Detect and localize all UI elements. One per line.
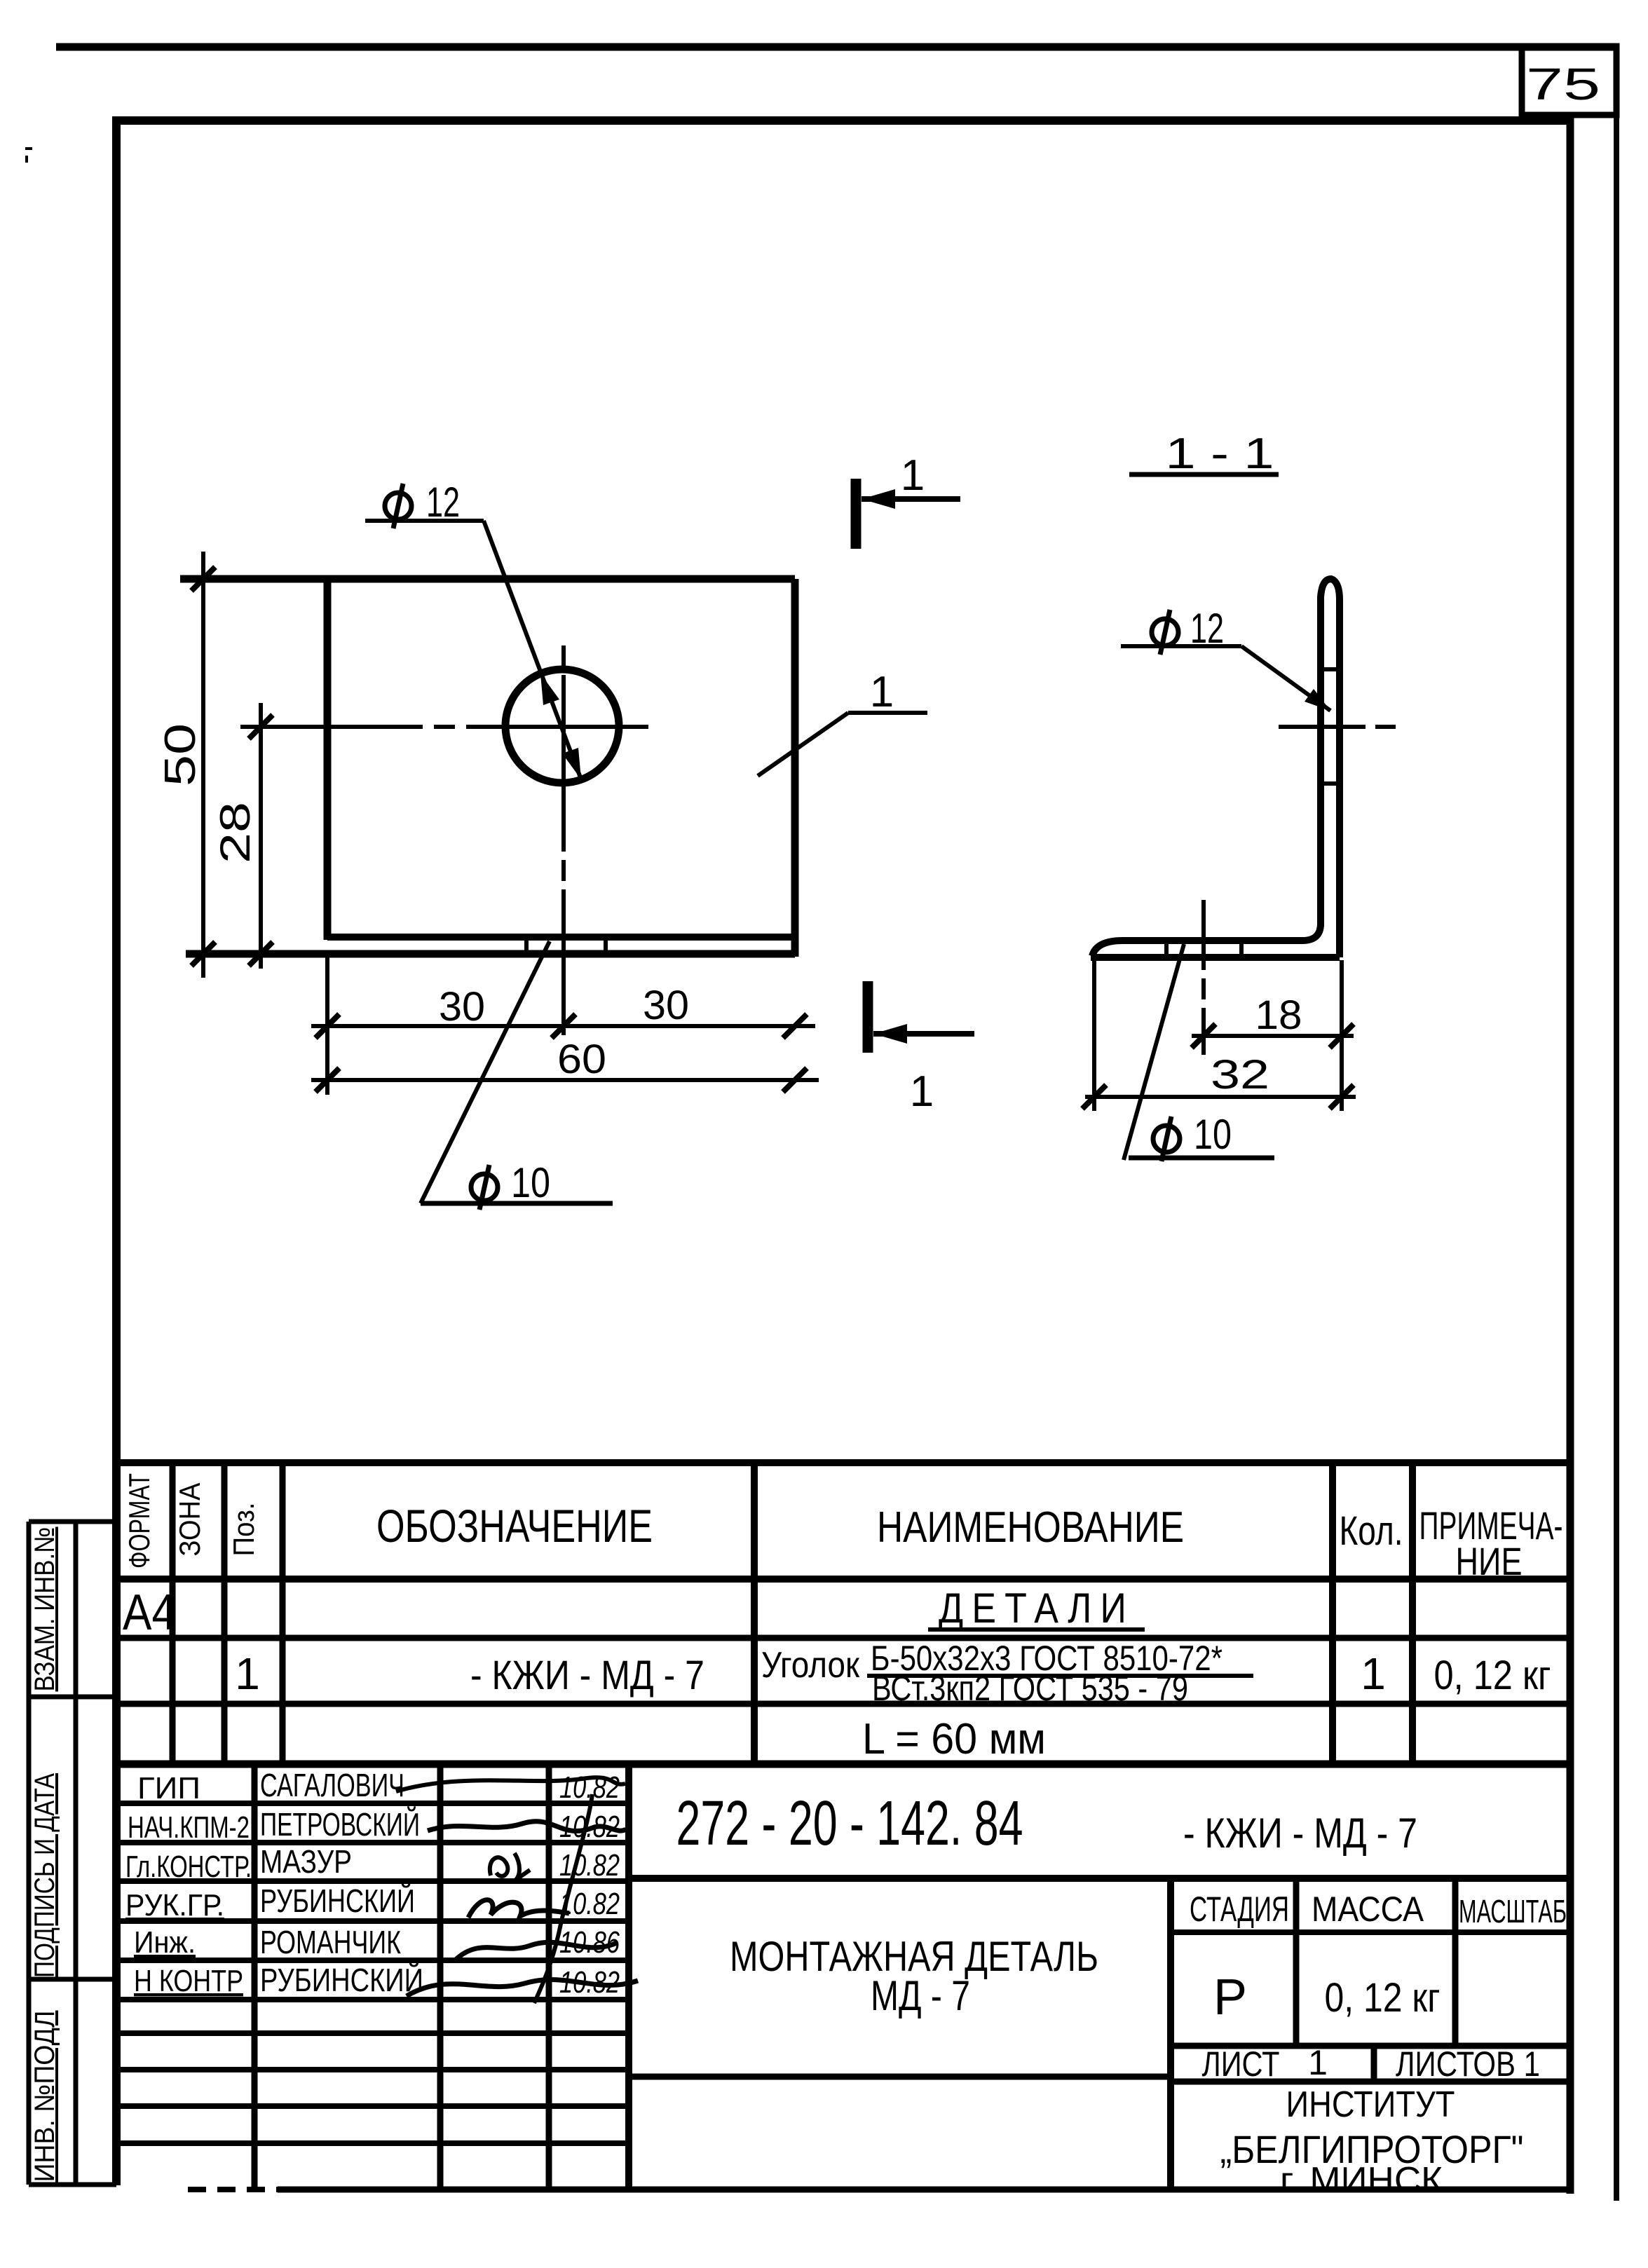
hole vertical center line — [561, 645, 566, 1035]
signature table verticals — [252, 1764, 258, 2188]
side strip outer/inner verticals — [27, 1522, 32, 2185]
svg-text:ОБОЗНАЧЕНИЕ: ОБОЗНАЧЕНИЕ — [376, 1500, 653, 1552]
svg-text:ПЕТРОВСКИЙ: ПЕТРОВСКИЙ — [260, 1806, 420, 1843]
svg-text:10.82: 10.82 — [559, 1848, 620, 1883]
svg-text:МД - 7: МД - 7 — [871, 1972, 970, 2019]
svg-text:0, 12 кг: 0, 12 кг — [1325, 1975, 1441, 2021]
stadia/massa/masshtab header row — [1171, 1929, 1570, 1935]
section: flange bottom line — [1091, 954, 1340, 961]
svg-text:ИНВ. №ПОДЛ: ИНВ. №ПОДЛ — [29, 2011, 60, 2182]
section: hole center line — [1279, 725, 1396, 729]
drawing frame border right — [1567, 115, 1574, 2194]
svg-text:30: 30 — [643, 983, 689, 1028]
svg-text:РУБИНСКИЙ: РУБИНСКИЙ — [260, 1962, 423, 1998]
svg-text:РОМАНЧИК: РОМАНЧИК — [260, 1924, 401, 1960]
page number box 75 — [1522, 46, 1616, 115]
front view: left edge — [324, 579, 332, 940]
phi10 hole edges in flange strip — [524, 939, 529, 952]
right sub-block vertical — [1167, 1878, 1174, 2191]
svg-text:ИНСТИТУТ: ИНСТИТУТ — [1286, 2084, 1455, 2125]
section: vertical leg outline — [1321, 579, 1340, 957]
svg-text:ДЕТАЛИ: ДЕТАЛИ — [939, 1585, 1135, 1632]
svg-text:60: 60 — [557, 1037, 606, 1082]
sheet top edge line — [56, 43, 1614, 51]
svg-text:1: 1 — [1308, 2043, 1328, 2082]
svg-text:ЗОНА: ЗОНА — [173, 1483, 206, 1557]
label phi12 (section) with leader — [1152, 619, 1178, 645]
svg-text:А4: А4 — [123, 1585, 176, 1641]
dimension 30+30 (left view) — [325, 957, 329, 1095]
svg-text:МАССА: МАССА — [1312, 1890, 1424, 1929]
doc number band bottom — [629, 1875, 1570, 1882]
spec table vertical lines — [170, 1463, 176, 1764]
svg-text:ПОДПИСЬ И ДАТА: ПОДПИСЬ И ДАТА — [29, 1773, 60, 1978]
svg-text:272 - 20 - 142. 84: 272 - 20 - 142. 84 — [676, 1789, 1023, 1859]
leader line phi12 — [484, 521, 581, 779]
svg-text:Н КОНТР: Н КОНТР — [134, 1964, 243, 1998]
svg-text:ГИП: ГИП — [137, 1771, 200, 1805]
svg-text:РУБИНСКИЙ: РУБИНСКИЙ — [260, 1883, 415, 1919]
dimension 60 (left view) — [311, 1078, 819, 1082]
svg-text:ВСт.3кп2 ГОСТ 535 - 79: ВСт.3кп2 ГОСТ 535 - 79 — [872, 1669, 1188, 1708]
svg-text:СТАДИЯ: СТАДИЯ — [1190, 1890, 1289, 1929]
svg-text:28: 28 — [212, 802, 259, 863]
dimension 50 (left view) — [201, 552, 205, 978]
svg-text:НИЕ: НИЕ — [1456, 1539, 1523, 1583]
svg-text:Кол.: Кол. — [1340, 1508, 1403, 1554]
svg-text:10: 10 — [1194, 1111, 1232, 1158]
svg-text:Инж.: Инж. — [134, 1925, 196, 1960]
svg-text:Уголок: Уголок — [761, 1645, 859, 1686]
spec table horizontal lines — [116, 1459, 1570, 1466]
svg-text:- КЖИ - МД - 7: - КЖИ - МД - 7 — [1183, 1810, 1417, 1857]
svg-text:НАЧ.КПМ-2: НАЧ.КПМ-2 — [128, 1810, 250, 1845]
section mark 1 top — [851, 479, 862, 549]
signature table row lines — [116, 1801, 629, 1806]
svg-text:1 - 1: 1 - 1 — [1166, 430, 1274, 478]
svg-text:1: 1 — [235, 1648, 260, 1699]
outer right vertical line — [1614, 46, 1619, 2201]
front view: fold line bottom of face — [327, 934, 795, 941]
section: phi10 hole center line — [1201, 900, 1206, 1055]
svg-text:1: 1 — [870, 668, 894, 716]
svg-text:Поз.: Поз. — [227, 1503, 260, 1557]
dimension 28 (left view) — [259, 703, 263, 969]
label phi12 (left view) — [385, 493, 411, 519]
svg-text:10: 10 — [511, 1159, 550, 1206]
svg-text:САГАЛОВИЧ: САГАЛОВИЧ — [260, 1767, 404, 1803]
dimension 18 (section) — [1340, 960, 1344, 1051]
title name box bottom — [629, 2074, 1171, 2080]
svg-text:- КЖИ - МД - 7: - КЖИ - МД - 7 — [470, 1653, 704, 1698]
dimension 32 (section) — [1092, 960, 1096, 1111]
label phi10 (left view) with leader — [471, 1174, 498, 1201]
svg-text:ВЗАМ. ИНВ.№: ВЗАМ. ИНВ.№ — [29, 1527, 60, 1692]
svg-text:НАИМЕНОВАНИЕ: НАИМЕНОВАНИЕ — [877, 1503, 1184, 1552]
svg-text:75: 75 — [1526, 59, 1600, 109]
svg-text:ФОРМАТ: ФОРМАТ — [123, 1473, 156, 1569]
svg-text:30: 30 — [439, 984, 485, 1030]
svg-text:18: 18 — [1255, 992, 1302, 1038]
front view: top edge of plate + extension line for dim 50 — [180, 575, 795, 583]
hole phi12 circle — [505, 669, 619, 783]
svg-text:г. МИНСК: г. МИНСК — [1280, 2160, 1443, 2201]
section mark 1 bottom — [863, 981, 873, 1053]
svg-text:ЛИСТ: ЛИСТ — [1202, 2044, 1280, 2084]
svg-text:Р: Р — [1213, 1969, 1247, 2026]
title block top line — [116, 1761, 1570, 1768]
drawing frame border top — [113, 116, 1572, 125]
front view: right edge — [791, 579, 799, 957]
side strip box lines — [29, 1519, 116, 1524]
svg-text:50: 50 — [156, 723, 205, 786]
svg-text:ЛИСТОВ 1: ЛИСТОВ 1 — [1396, 2044, 1540, 2084]
signature scribbles — [396, 1777, 625, 1791]
section: flange top line — [1092, 924, 1321, 956]
svg-text:1: 1 — [901, 451, 925, 500]
svg-text:0, 12 кг: 0, 12 кг — [1434, 1653, 1551, 1698]
svg-text:1: 1 — [910, 1067, 934, 1116]
drawing frame border left — [112, 116, 121, 2185]
section: phi10 hole edges in flange — [1164, 938, 1169, 960]
list row — [1171, 2043, 1570, 2049]
svg-text:Гл.КОНСТР.: Гл.КОНСТР. — [125, 1850, 252, 1884]
front view: flange bottom edge + extension line for dims — [186, 950, 795, 958]
svg-text:РУК.ГР.: РУК.ГР. — [125, 1888, 224, 1922]
small stray mark top left — [25, 149, 32, 163]
title mid vertical divider — [625, 1764, 632, 2188]
svg-text:12: 12 — [426, 479, 460, 526]
svg-text:L = 60 мм: L = 60 мм — [862, 1715, 1046, 1763]
hole horizontal center line — [240, 725, 652, 729]
section: hole phi12 edge lines in leg — [1319, 667, 1342, 671]
svg-text:МАЗУР: МАЗУР — [260, 1843, 352, 1880]
position leader 1 (left view) — [758, 713, 848, 776]
svg-text:1: 1 — [1361, 1648, 1386, 1699]
svg-text:МАСШТАБ: МАСШТАБ — [1459, 1893, 1567, 1929]
svg-text:32: 32 — [1211, 1052, 1269, 1098]
drawing frame border bottom — [188, 2187, 283, 2192]
label phi10 (section) with leader — [1153, 1126, 1180, 1152]
